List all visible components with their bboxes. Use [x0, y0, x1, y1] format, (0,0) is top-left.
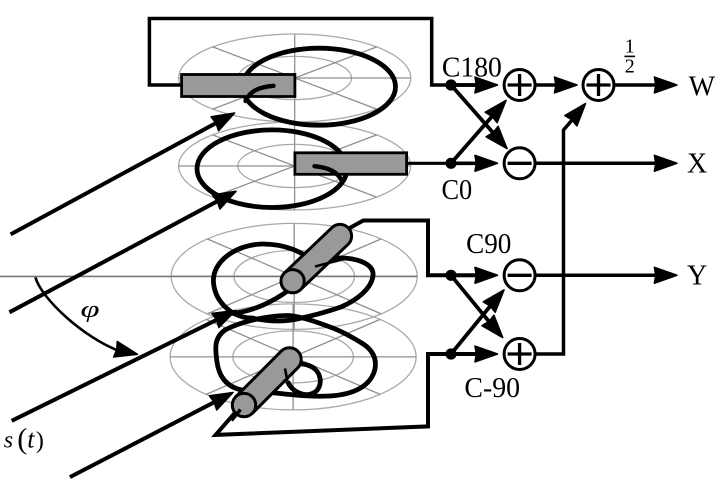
antenna element A3 (rod) [281, 224, 352, 292]
output arrow X [535, 155, 677, 171]
svg-text:t: t [27, 424, 35, 453]
svg-text:C180: C180 [442, 52, 502, 83]
svg-text:2: 2 [625, 55, 635, 77]
loop L3 hook tick [315, 259, 346, 267]
cross arrow C90 to adder S4 [451, 275, 503, 337]
arrow C90 to subtractor S3 [451, 267, 498, 283]
subtractor S3 (minus) [504, 260, 535, 291]
svg-text:φ: φ [81, 297, 100, 323]
arrow C0 to subtractor S2 [451, 155, 498, 171]
arrow adder S1 to adder S5 [535, 77, 577, 93]
antenna element A2 (dipole bar) [295, 153, 407, 175]
incident ray 4 [70, 393, 233, 478]
node C0 (junction dot) [445, 158, 456, 169]
output arrow Y [535, 267, 677, 283]
polar grid 1 (pattern of antenna A1) [179, 34, 411, 122]
incident ray 3 [12, 311, 236, 421]
cross arrow C0 to adder S1 [451, 101, 506, 164]
svg-text:C-90: C-90 [464, 373, 520, 404]
antenna element A4 (rod) [232, 348, 302, 421]
angle phi arc [35, 277, 137, 357]
svg-text:W: W [689, 72, 716, 103]
cross arrow C180 to subtractor S2 [451, 85, 507, 149]
adder S5 (plus, half gain) [583, 70, 614, 101]
radiation loop L2 [197, 130, 347, 208]
node C-90 (junction dot) [445, 348, 456, 359]
incident ray 2 [9, 191, 236, 312]
loop L4 hook tick [285, 369, 288, 382]
label s(t) [4, 422, 44, 455]
svg-text:): ) [36, 428, 44, 454]
wire antenna A1 to node C180 [149, 19, 481, 86]
polar grid 4 (pattern of antenna A4) [170, 304, 416, 410]
svg-text:1: 1 [625, 36, 635, 58]
loop L2 end hook [315, 166, 343, 182]
arrow C-90 to adder S4 [451, 346, 498, 362]
svg-text:Y: Y [687, 260, 707, 291]
wire antenna A3 to node C90 [346, 221, 481, 276]
output arrow W [614, 77, 677, 93]
wire adder S4 to adder S5 [535, 104, 586, 354]
svg-text:X: X [687, 148, 707, 179]
incident ray 1 [11, 113, 235, 234]
wire antenna A2 to node C0 [407, 162, 482, 165]
node C90 (junction dot) [445, 270, 456, 281]
polar grid 3 (pattern of antenna A3) [171, 223, 417, 329]
cross arrow C-90 to subtractor S3 [451, 290, 504, 354]
radiation loop L1 [243, 48, 396, 125]
radiation loop L3 [213, 244, 373, 321]
arrow C180 to adder S1 [451, 77, 498, 93]
adder S1 (plus) [504, 70, 535, 101]
svg-text:s: s [4, 427, 13, 453]
antenna element A1 (dipole bar) [182, 75, 295, 97]
polar grid 2 (pattern of antenna A2) [179, 122, 411, 210]
svg-text:(: ( [17, 422, 27, 455]
wire antenna A4 to node C-90 [216, 354, 481, 435]
svg-text:C90: C90 [466, 229, 511, 260]
svg-text:C0: C0 [442, 175, 473, 206]
horizontal reference line [0, 275, 417, 277]
radiation loop L4 [216, 315, 376, 396]
subtractor S2 (minus) [504, 148, 535, 179]
label 1/2 gain [624, 36, 635, 78]
loop L1 end hook [246, 86, 274, 101]
adder S4 (plus) [504, 339, 535, 370]
node C180 (junction dot) [445, 79, 456, 90]
